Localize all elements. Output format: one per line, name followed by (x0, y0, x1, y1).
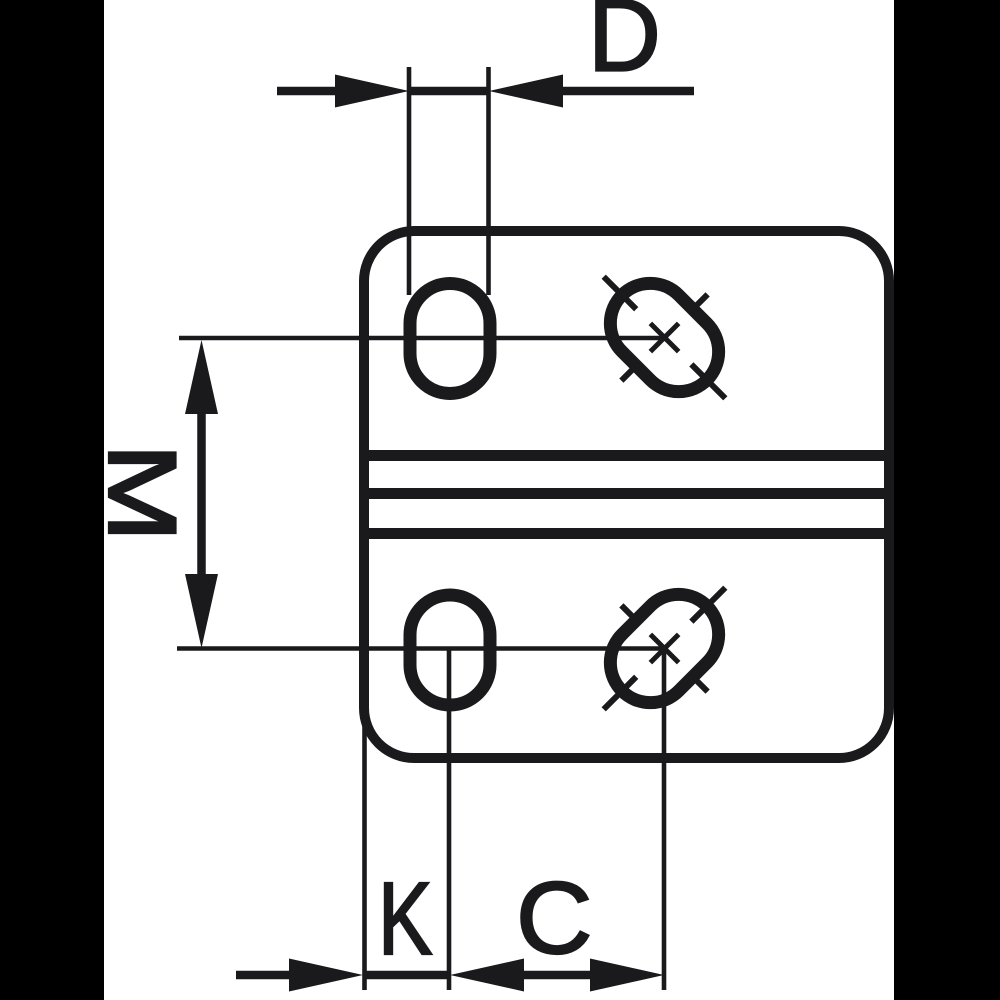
svg-text:M: M (89, 443, 196, 542)
svg-text:C: C (516, 862, 593, 976)
svg-text:K: K (378, 861, 432, 976)
svg-text:D: D (588, 0, 661, 93)
